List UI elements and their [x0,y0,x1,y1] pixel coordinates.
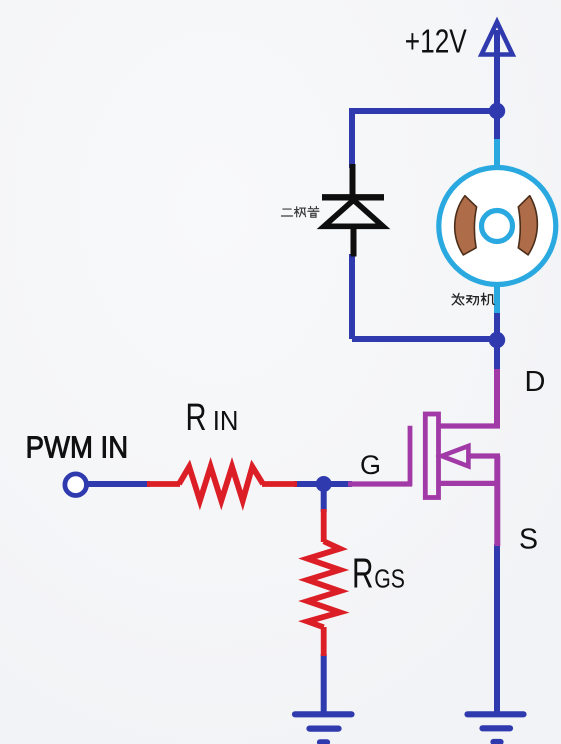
svg-text:IN: IN [213,405,239,436]
svg-text:S: S [519,524,538,556]
svg-text:PWM IN: PWM IN [26,430,129,464]
svg-text:+12V: +12V [405,23,467,60]
svg-text:G: G [360,450,381,480]
svg-text:GS: GS [374,564,405,594]
svg-text:R: R [352,550,374,597]
svg-text:D: D [525,366,546,398]
svg-text:R: R [186,397,207,439]
